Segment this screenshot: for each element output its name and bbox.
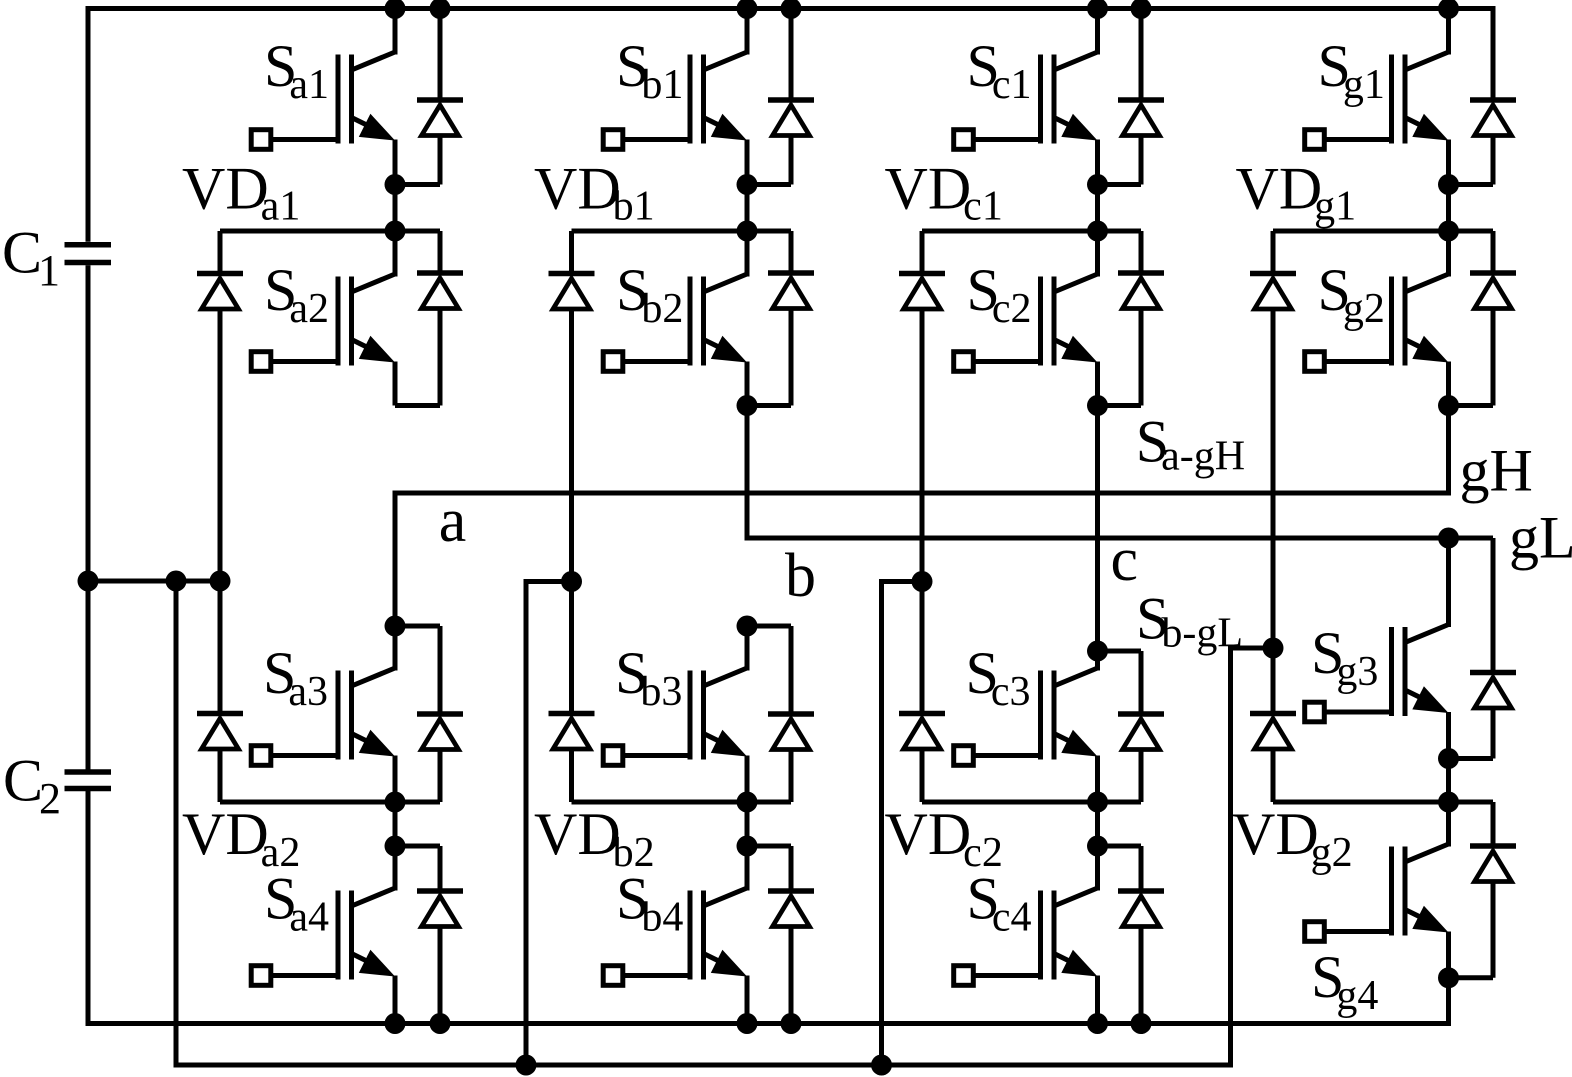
wire Sg2 collector bbox=[1446, 231, 1451, 277]
junction dot Sc3 emitter node bbox=[1087, 792, 1108, 813]
junction dot Sc3 collector node bbox=[1087, 641, 1108, 662]
svg-text:a: a bbox=[439, 487, 467, 555]
diode VDa1 clamp bbox=[218, 231, 223, 274]
wire VDb clamp jog to neutral bus bbox=[526, 582, 572, 1066]
wire clamp line VDb1 bbox=[572, 229, 792, 234]
wire Sa3 emitter bbox=[393, 756, 398, 803]
transistor Sa2 bbox=[352, 274, 396, 292]
wire Sc2 emitter bbox=[1095, 362, 1100, 406]
junction dot Sc2 emitter node bbox=[1087, 395, 1108, 416]
wire Sg4 collector bbox=[1446, 802, 1451, 847]
transistor Sa3 bbox=[352, 668, 396, 686]
junction dot Sg4 emitter node bbox=[1438, 967, 1459, 988]
diode antiparallel with Sc4 bbox=[1139, 846, 1144, 891]
wire node Sc1-Sc2 bbox=[1095, 185, 1100, 232]
wire Sb4 collector bbox=[745, 846, 750, 891]
junction dot Sg1 collector on DC+ rail bbox=[1438, 0, 1459, 19]
junction dot VDb clamp at neutral level bbox=[561, 571, 582, 592]
wire Sa2 emitter to diode bbox=[395, 403, 440, 408]
junction dot clamp node c upper bbox=[1087, 221, 1108, 242]
diode antiparallel with Sg1 bbox=[1491, 9, 1496, 101]
junction dot VDc jog on neutral bus bbox=[871, 1055, 892, 1076]
diode antiparallel with Sc1 bbox=[1139, 9, 1144, 101]
wire Sg1 emitter to diode bbox=[1449, 182, 1494, 187]
wire Sc3 collector to diode bbox=[1098, 649, 1142, 654]
diode antiparallel with Sb4 bbox=[789, 846, 794, 891]
svg-text:gL: gL bbox=[1509, 505, 1572, 571]
wire Sg3 collector bbox=[1446, 538, 1451, 627]
transistor Sb4 bbox=[704, 888, 748, 906]
wire node Sg3-Sg4 bbox=[1446, 759, 1451, 803]
junction dot Sa3 collector node bbox=[385, 616, 406, 637]
transistor Sb1 bbox=[704, 52, 748, 70]
transistor Sc4 bbox=[1054, 888, 1098, 906]
wire Sa2 emitter bbox=[393, 362, 398, 406]
transistor Sg1 bbox=[1405, 52, 1449, 70]
wire node Sc3-Sc4 bbox=[1095, 802, 1100, 846]
wire neutral mid rail bbox=[86, 579, 223, 584]
diode VDg1 clamp bbox=[1271, 231, 1276, 274]
junction dot VDc diode top on DC+ rail bbox=[1131, 0, 1152, 19]
wire Sg4 emitter bbox=[1446, 932, 1451, 978]
wire node Sa1-Sa2 bbox=[393, 185, 398, 232]
wire Sg1 emitter bbox=[1446, 140, 1451, 185]
junction dot clamp node b upper bbox=[737, 221, 758, 242]
junction dot Sb4 diode on DC- rail bbox=[781, 1013, 802, 1034]
wire gL net (phase b to gL) bbox=[747, 406, 1449, 539]
diode VDc2 clamp bbox=[920, 581, 925, 714]
wire Sc3 collector bbox=[1095, 651, 1100, 671]
wire phase c bbox=[1095, 406, 1100, 652]
wire top DC+ rail bbox=[86, 6, 1496, 11]
wire Sg3 emitter bbox=[1446, 712, 1451, 759]
junction dot Sb3 collector node bbox=[737, 616, 758, 637]
diode antiparallel with Sb1 bbox=[789, 9, 794, 101]
transistor Sg4 bbox=[1405, 844, 1449, 862]
transistor Sb2 bbox=[704, 274, 748, 292]
junction dot VDb diode top on DC+ rail bbox=[781, 0, 802, 19]
wire left DC rail lower segment bbox=[86, 791, 91, 1024]
junction dot Sg3 emitter node bbox=[1438, 748, 1459, 769]
junction dot clamp node g lower bbox=[1438, 792, 1459, 813]
junction dot Sc4 diode on DC- rail bbox=[1131, 1013, 1152, 1034]
junction dot clamp node a upper bbox=[385, 221, 406, 242]
wire neutral bus bbox=[176, 581, 1273, 1065]
wire Sb3 emitter bbox=[745, 756, 750, 803]
transistor Sg3 bbox=[1405, 625, 1449, 643]
junction dot Sg1 emitter node bbox=[1438, 174, 1459, 195]
wire bottom DC- rail bbox=[86, 978, 1449, 1024]
junction dot Sb2 emitter node bbox=[737, 395, 758, 416]
diode antiparallel with Sg4 bbox=[1491, 802, 1496, 846]
diode VDg2 clamp bbox=[1271, 648, 1276, 714]
wire clamp line VDg1 bbox=[1273, 229, 1493, 234]
diode VDc1 clamp bbox=[920, 231, 925, 274]
wire Sc4 collector to diode bbox=[1098, 844, 1142, 849]
junction dot Sa4 emitter on DC- rail bbox=[385, 1013, 406, 1034]
wire clamp line VDa2 bbox=[220, 800, 440, 805]
junction dot Sb4 emitter on DC- rail bbox=[737, 1013, 758, 1034]
junction dot gL node bbox=[1438, 528, 1459, 549]
wire Sg1 collector bbox=[1446, 9, 1451, 55]
wire gH net (phase a to gH) bbox=[395, 406, 1449, 627]
wire Sb4 collector to diode bbox=[747, 844, 791, 849]
junction dot Sc4 collector node bbox=[1087, 836, 1108, 857]
svg-text:gH: gH bbox=[1460, 438, 1533, 504]
junction dot Sa3 emitter node bbox=[385, 792, 406, 813]
wire Sc4 emitter bbox=[1095, 976, 1100, 1024]
junction dot VDc clamp at neutral level bbox=[912, 571, 933, 592]
wire clamp line VDc2 bbox=[922, 800, 1141, 805]
junction dot neutral tap bbox=[166, 571, 187, 592]
wire Sa3 collector to diode bbox=[395, 624, 440, 629]
wire Sa2 collector bbox=[393, 231, 398, 277]
wire Sc2 emitter to diode bbox=[1098, 403, 1142, 408]
wire Sa1 emitter bbox=[393, 140, 398, 185]
transistor Sa4 bbox=[352, 888, 396, 906]
junction dot Sb3 emitter node bbox=[737, 792, 758, 813]
transistor Sa1 bbox=[352, 52, 396, 70]
wire node Sg1-Sg2 bbox=[1446, 185, 1451, 232]
wire Sb3 collector bbox=[745, 626, 750, 671]
wire clamp line VDb2 bbox=[572, 800, 792, 805]
wire Sb2 emitter to diode bbox=[747, 403, 791, 408]
wire Sa1 collector bbox=[393, 9, 398, 55]
wire node Sa3-Sa4 bbox=[393, 802, 398, 846]
wire Sb4 emitter bbox=[745, 976, 750, 1024]
wire Sb1 emitter to diode bbox=[747, 182, 791, 187]
diode antiparallel with Sg2 bbox=[1491, 231, 1496, 273]
wire Sb1 emitter bbox=[745, 140, 750, 185]
svg-text:b: b bbox=[785, 542, 816, 610]
transistor Sb3 bbox=[704, 668, 748, 686]
diode antiparallel with Sc2 bbox=[1139, 231, 1144, 273]
wire Sa4 emitter bbox=[393, 976, 398, 1024]
wire Sa4 collector bbox=[393, 846, 398, 891]
junction dot Sg2 emitter node bbox=[1438, 395, 1459, 416]
wire Sb2 collector bbox=[745, 231, 750, 277]
junction dot VDg clamp node bbox=[1263, 638, 1284, 659]
wire Sb1 collector bbox=[745, 9, 750, 55]
transistor Sc3 bbox=[1054, 668, 1098, 686]
junction dot neutral at VDa clamp bbox=[210, 571, 231, 592]
wire clamp line VDc1 bbox=[922, 229, 1141, 234]
junction dot VDb jog on neutral bus bbox=[516, 1055, 537, 1076]
junction dot Sb4 collector node bbox=[737, 836, 758, 857]
diode antiparallel with Sg3 bbox=[1449, 536, 1494, 541]
wire Sg3 emitter to diode bbox=[1449, 756, 1494, 761]
wire clamp line VDg2 bbox=[1273, 800, 1493, 805]
wire VDc clamp jog to neutral bus bbox=[882, 582, 923, 1066]
wire Sc3 emitter bbox=[1095, 756, 1100, 803]
wire left DC rail middle segment bbox=[86, 265, 91, 769]
junction dot clamp node g upper bbox=[1438, 221, 1459, 242]
junction dot Sc4 emitter on DC- rail bbox=[1087, 1013, 1108, 1034]
wire Sa4 collector to diode bbox=[395, 844, 440, 849]
diode antiparallel with Sa2 bbox=[438, 231, 443, 273]
capacitor C2 bbox=[65, 769, 112, 775]
svg-text:c: c bbox=[1111, 526, 1139, 594]
junction dot neutral at left rail bbox=[78, 571, 99, 592]
junction dot Sb1 emitter node bbox=[737, 174, 758, 195]
wire Sb2 emitter bbox=[745, 362, 750, 406]
wire Sa3 collector bbox=[393, 626, 398, 671]
junction dot VDa diode top on DC+ rail bbox=[430, 0, 451, 19]
wire Sc4 collector bbox=[1095, 846, 1100, 891]
diode antiparallel with Sb3 bbox=[789, 626, 794, 714]
diode VDb1 clamp bbox=[569, 231, 574, 274]
wire left DC rail upper segment bbox=[86, 6, 91, 242]
diode antiparallel with Sa3 bbox=[438, 626, 443, 714]
junction dot Sc1 emitter node bbox=[1087, 174, 1108, 195]
diode VDb2 clamp bbox=[569, 581, 574, 714]
transistor Sc1 bbox=[1054, 52, 1098, 70]
junction dot Sa1 emitter node bbox=[385, 174, 406, 195]
transistor Sg2 bbox=[1405, 274, 1449, 292]
diode antiparallel with Sa1 bbox=[438, 9, 443, 101]
wire Sc1 collector bbox=[1095, 9, 1100, 55]
junction dot Sa4 collector node bbox=[385, 836, 406, 857]
junction dot Sc1 collector on DC+ rail bbox=[1087, 0, 1108, 19]
wire Sg2 emitter bbox=[1446, 362, 1451, 406]
wire Sa1 emitter to diode bbox=[395, 182, 440, 187]
transistor Sc2 bbox=[1054, 274, 1098, 292]
wire Sc1 emitter bbox=[1095, 140, 1100, 185]
diode antiparallel with Sb2 bbox=[789, 231, 794, 273]
junction dot Sb1 collector on DC+ rail bbox=[737, 0, 758, 19]
diode VDa2 clamp bbox=[218, 581, 223, 714]
wire Sg4 emitter to diode bbox=[1449, 975, 1494, 980]
diode antiparallel with Sc3 bbox=[1139, 651, 1144, 714]
diode antiparallel with Sa4 bbox=[438, 846, 443, 891]
wire node Sb3-Sb4 bbox=[745, 802, 750, 846]
capacitor C1 bbox=[65, 242, 112, 248]
wire Sc1 emitter to diode bbox=[1098, 182, 1142, 187]
wire Sc2 collector bbox=[1095, 231, 1100, 277]
wire Sb3 collector to diode bbox=[747, 624, 791, 629]
junction dot Sa4 diode on DC- rail bbox=[430, 1013, 451, 1034]
wire node Sb1-Sb2 bbox=[745, 185, 750, 232]
wire clamp line VDa1 bbox=[220, 229, 440, 234]
wire Sg2 emitter to diode bbox=[1449, 403, 1494, 408]
junction dot Sa1 collector on DC+ rail bbox=[385, 0, 406, 19]
